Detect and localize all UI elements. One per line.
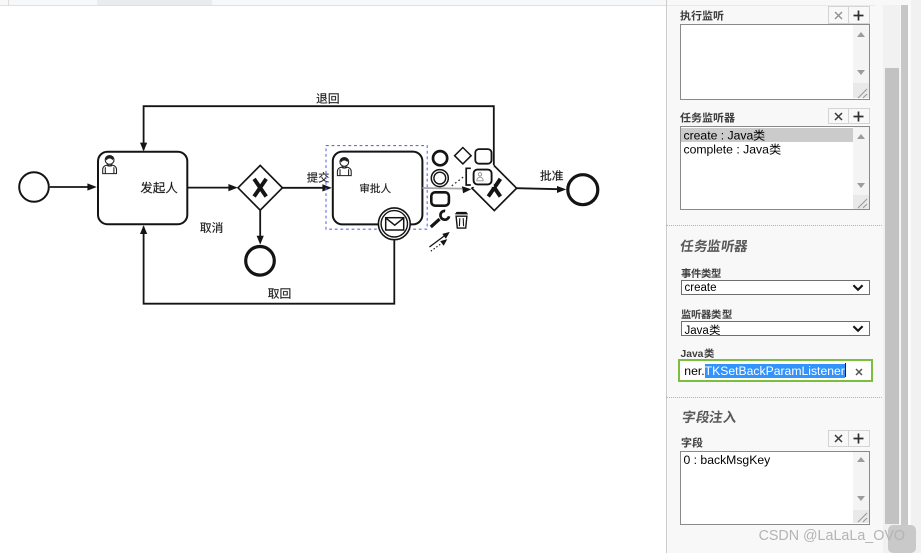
textarea 执行监听 (empty): [680, 24, 870, 100]
clear button row 2: [828, 108, 870, 125]
context pad: append task icon: [475, 149, 491, 164]
label 取消: [200, 222, 222, 233]
label 字段: [681, 434, 703, 450]
boundary message event on task2: [378, 208, 410, 240]
listbox2 scrollbar: [853, 127, 869, 208]
listbox 任务监听器: [680, 126, 870, 210]
label 事件类型: [681, 265, 722, 281]
context pad: preview dotted connector: [452, 176, 465, 186]
window scrollbar thumb strip: [901, 5, 908, 553]
start event: [19, 172, 49, 202]
selection outline of task2: [326, 146, 427, 230]
dotted separator 1: [666, 225, 884, 226]
task2 user icon: [337, 158, 351, 176]
context pad: append gateway icon: [455, 148, 472, 164]
gateway1 exclusive: [238, 165, 282, 210]
option text 0 : backMsgKey: [684, 454, 771, 466]
input Java类 (focused, green): [678, 359, 873, 382]
label 提交: [307, 172, 329, 183]
wire task2 to gateway2 (faded under context pad): [422, 187, 462, 190]
label 退回: [316, 93, 338, 103]
label 任务监听器: [680, 109, 735, 125]
context pad: preview bracket: [466, 168, 471, 185]
top browser strip: [0, 0, 921, 6]
context pad: wrench (change type) icon: [431, 219, 440, 227]
context pad: append intermediate event icon: [431, 170, 448, 187]
context pad: append preview white backdrop: [464, 165, 494, 187]
context pad: trash icon: [455, 212, 469, 215]
context pad: connect icon (two arrows): [429, 235, 445, 247]
CSDN watermark: [700, 529, 905, 543]
context pad: user task preview icon: [474, 170, 492, 185]
cancel end event: [246, 246, 275, 275]
selected option create:Java类: [681, 128, 853, 142]
message envelope: [386, 218, 404, 230]
gateway2 exclusive: [472, 166, 517, 211]
label Java类: [681, 348, 715, 360]
bottom-right rounded overlay box: [888, 525, 916, 553]
clear button row 3: [828, 430, 870, 447]
add button row 1: [853, 10, 864, 21]
取回 connector (boundary event to task1 bottom): [144, 227, 395, 304]
wire start to task1: [50, 186, 89, 188]
option text create : Java类: [684, 129, 766, 142]
task1 发起人: [98, 152, 187, 225]
task1 user icon: [103, 156, 117, 174]
label 审批人: [360, 183, 391, 193]
listbox 字段: [680, 451, 870, 525]
properties panel scrollbar thumb: [885, 68, 899, 524]
option text complete : Java类: [684, 143, 782, 156]
clear x inside input: [855, 368, 863, 376]
panel top faint rule: [667, 5, 875, 6]
label 发起人: [141, 182, 178, 194]
properties panel background: [666, 0, 921, 553]
label 批准: [540, 170, 563, 181]
label 取回: [268, 288, 290, 298]
label 监听器类型: [681, 306, 732, 322]
properties panel scrollbar track: [883, 5, 900, 553]
dotted separator 2: [666, 397, 884, 398]
caret: [845, 363, 847, 377]
listbox3 scrollbar: [853, 452, 869, 523]
clear button row 1: [828, 6, 870, 25]
add button row 3: [853, 433, 864, 444]
add button row 2: [853, 111, 864, 122]
gateway2 X marker: [488, 179, 500, 197]
group header 字段注入: [680, 410, 737, 426]
context pad: append subprocess icon: [431, 192, 449, 205]
group header 任务监听器: [678, 239, 748, 255]
wire gateway1 to task2: [282, 187, 324, 189]
退回 connector (gateway2 top to task1 top): [144, 106, 494, 165]
textarea1 scrollbar: [853, 25, 869, 98]
window scrollbar track: [911, 0, 921, 553]
task2 审批人: [333, 152, 423, 225]
select 监听器类型 = Java类: [681, 321, 870, 336]
end event 批准: [568, 175, 598, 205]
wire gateway2 to end event: [517, 188, 559, 189]
top strip separator tick: [8, 0, 9, 5]
context pad: append end event icon: [433, 151, 447, 165]
gateway1 X marker: [254, 179, 266, 197]
top strip active tab segment: [97, 0, 212, 5]
wire task1 to gateway1: [188, 187, 230, 189]
wire gateway1 down to cancel end: [259, 210, 261, 237]
label 执行监听: [680, 7, 724, 23]
select 事件类型 = create: [681, 280, 870, 295]
window scrollbar gap: [908, 5, 911, 553]
